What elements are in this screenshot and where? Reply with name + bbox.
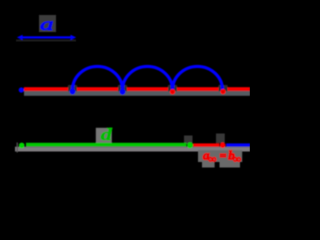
blue dot q1: [70, 89, 76, 95]
red dot q3 center: [172, 91, 174, 93]
label halo a_inf = b_inf main: [198, 150, 242, 162]
halo dot q3: [168, 85, 177, 91]
arrowhead left: [17, 35, 23, 40]
red segment: [193, 143, 219, 146]
arc 1: [73, 66, 123, 90]
arc 2: [123, 66, 173, 90]
halo dot q1: [68, 85, 77, 91]
red dot q3: [170, 89, 175, 94]
svg-text:∞: ∞: [208, 154, 216, 166]
double arrow line: [20, 36, 72, 38]
double arrow shadow: [16, 39, 76, 41]
label halo descender right: [220, 162, 241, 168]
red line: [24, 87, 250, 91]
red dot bottom: [220, 142, 226, 148]
arc 3: [173, 66, 223, 90]
green dot right end: [187, 142, 193, 148]
green line shadow: [15, 147, 250, 152]
arrowhead right: [71, 35, 77, 40]
green line: [26, 143, 187, 147]
green dot left end: [19, 143, 25, 149]
red dot q4 center: [222, 91, 224, 93]
red line shadow: [24, 91, 250, 96]
label halo for green letter d: [96, 128, 112, 144]
tick at green line start: [17, 143, 18, 153]
halo dot q4: [219, 85, 228, 91]
label halo for blue letter a: [39, 15, 56, 32]
label d ascender tick: [110, 128, 112, 131]
svg-text:a: a: [40, 14, 53, 34]
blue dot q2: [120, 89, 126, 95]
svg-text:=: =: [220, 149, 227, 163]
halo green end dot: [184, 136, 193, 145]
halo dot q2: [118, 85, 127, 91]
red dot q4: [220, 89, 225, 94]
blue dot left end of red line: [19, 87, 24, 92]
halo red bottom dot: [216, 134, 225, 144]
blue segment: [226, 143, 250, 146]
label halo descender left: [202, 162, 215, 168]
svg-text:∞: ∞: [233, 154, 241, 166]
